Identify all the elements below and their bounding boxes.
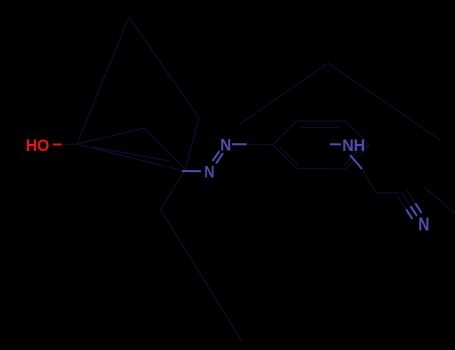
- wire apex down-right edge: [129, 17, 199, 118]
- bond CH2-C nitrile carbon: [376, 192, 402, 194]
- bond O-C1 carbon half: [62, 143, 77, 146]
- bond C4-N azo nitrogen half (bright): [182, 170, 201, 172]
- wire C1'-C2': [273, 121, 297, 145]
- wire connector to azo carbon: [185, 118, 199, 170]
- upper right roof right edge: [328, 63, 440, 140]
- bond NH-CH2 nitrogen half (bright): [350, 155, 362, 169]
- wire C1 to C4 bottom edge: [77, 144, 184, 171]
- bond NH-CH2 carbon half: [362, 169, 376, 193]
- svg-text:N: N: [204, 163, 214, 182]
- nitrile triple bond C#N nitrogen halves (bright): [406, 203, 422, 219]
- svg-text:N: N: [220, 136, 231, 155]
- svg-text:NH: NH: [342, 136, 365, 155]
- wire C3'-C4': [346, 121, 370, 145]
- double bond inner top: [301, 127, 341, 129]
- wire C5'-C6': [296, 168, 345, 170]
- ring 1 distorted (left ring skeleton): [77, 17, 243, 343]
- bond N-ring2 carbon half: [247, 143, 273, 145]
- wire C2'-C3': [296, 120, 345, 122]
- wire C4'-C5': [346, 145, 370, 169]
- azo N=N double bond: [213, 151, 224, 164]
- nitrile triple bond C#N carbon halves: [397, 190, 415, 209]
- svg-text:N: N: [418, 215, 429, 235]
- upper right roof left edge: [240, 63, 328, 124]
- wire roof right: [145, 128, 186, 170]
- wire lower right diagonal: [424, 187, 455, 213]
- wire C4 to C5: [161, 170, 186, 210]
- double bond inner bottom-left: [280, 148, 298, 165]
- wire C5 long substituent: [161, 210, 244, 343]
- double bond inner bottom-right: [344, 148, 362, 165]
- wire roof left: [77, 128, 145, 144]
- wire C1 up-left edge: [77, 17, 129, 144]
- bond N-ring2 nitrogen half (bright): [232, 143, 247, 145]
- double bond inner bottom: [93, 147, 170, 161]
- bond O-C1 oxygen half (red): [53, 144, 62, 146]
- bond ring2-NH nitrogen half (bright): [330, 143, 341, 145]
- svg-text:HO: HO: [26, 136, 50, 155]
- ring 2 benzene: [273, 121, 369, 169]
- wire C6'-C1': [273, 145, 297, 169]
